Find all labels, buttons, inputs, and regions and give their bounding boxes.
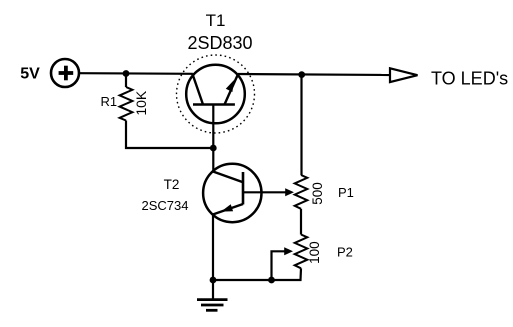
wire T1 base to T2 collector xyxy=(212,148,214,171)
wire 5V rail to T1 collector xyxy=(79,72,193,75)
svg-text:100: 100 xyxy=(307,241,322,264)
svg-text:2SC734: 2SC734 xyxy=(142,198,189,213)
svg-text:2SD830: 2SD830 xyxy=(187,33,252,53)
svg-text:T2: T2 xyxy=(164,177,180,192)
transistor T1 xyxy=(177,55,255,148)
wire P1 bottom to P2 top xyxy=(300,209,302,235)
svg-text:TO LED's: TO LED's xyxy=(431,68,508,88)
junction P2 wiper / ground rail xyxy=(268,277,275,284)
junction output node / P1 branch xyxy=(298,71,305,78)
resistor R1 xyxy=(120,74,133,147)
svg-text:T1: T1 xyxy=(206,11,226,30)
voltage source V+ 5V xyxy=(51,59,79,87)
svg-text:500: 500 xyxy=(310,182,325,205)
svg-text:R1: R1 xyxy=(101,94,118,109)
wire P2 bottom to ground rail xyxy=(213,268,301,280)
arrow TO LED's xyxy=(390,68,418,82)
transistor T2 xyxy=(203,164,261,222)
wire T2 emitter to ground xyxy=(212,215,214,281)
svg-text:10K: 10K xyxy=(133,90,149,116)
wire T1 emitter to output node xyxy=(238,74,391,75)
potentiometer P1 xyxy=(285,175,307,209)
ground xyxy=(197,280,228,310)
svg-text:5V: 5V xyxy=(20,65,40,82)
junction R1 top xyxy=(123,70,130,77)
wire R1 bottom to T1 base xyxy=(125,147,214,149)
svg-text:P2: P2 xyxy=(337,245,353,260)
svg-text:P1: P1 xyxy=(338,185,354,200)
junction T1 base / R1 xyxy=(210,145,217,152)
potentiometer P2 xyxy=(272,235,308,281)
junction ground node xyxy=(210,277,217,284)
wire T2 base to P1 wiper xyxy=(243,191,286,193)
wire output node to P1 top xyxy=(300,75,302,175)
